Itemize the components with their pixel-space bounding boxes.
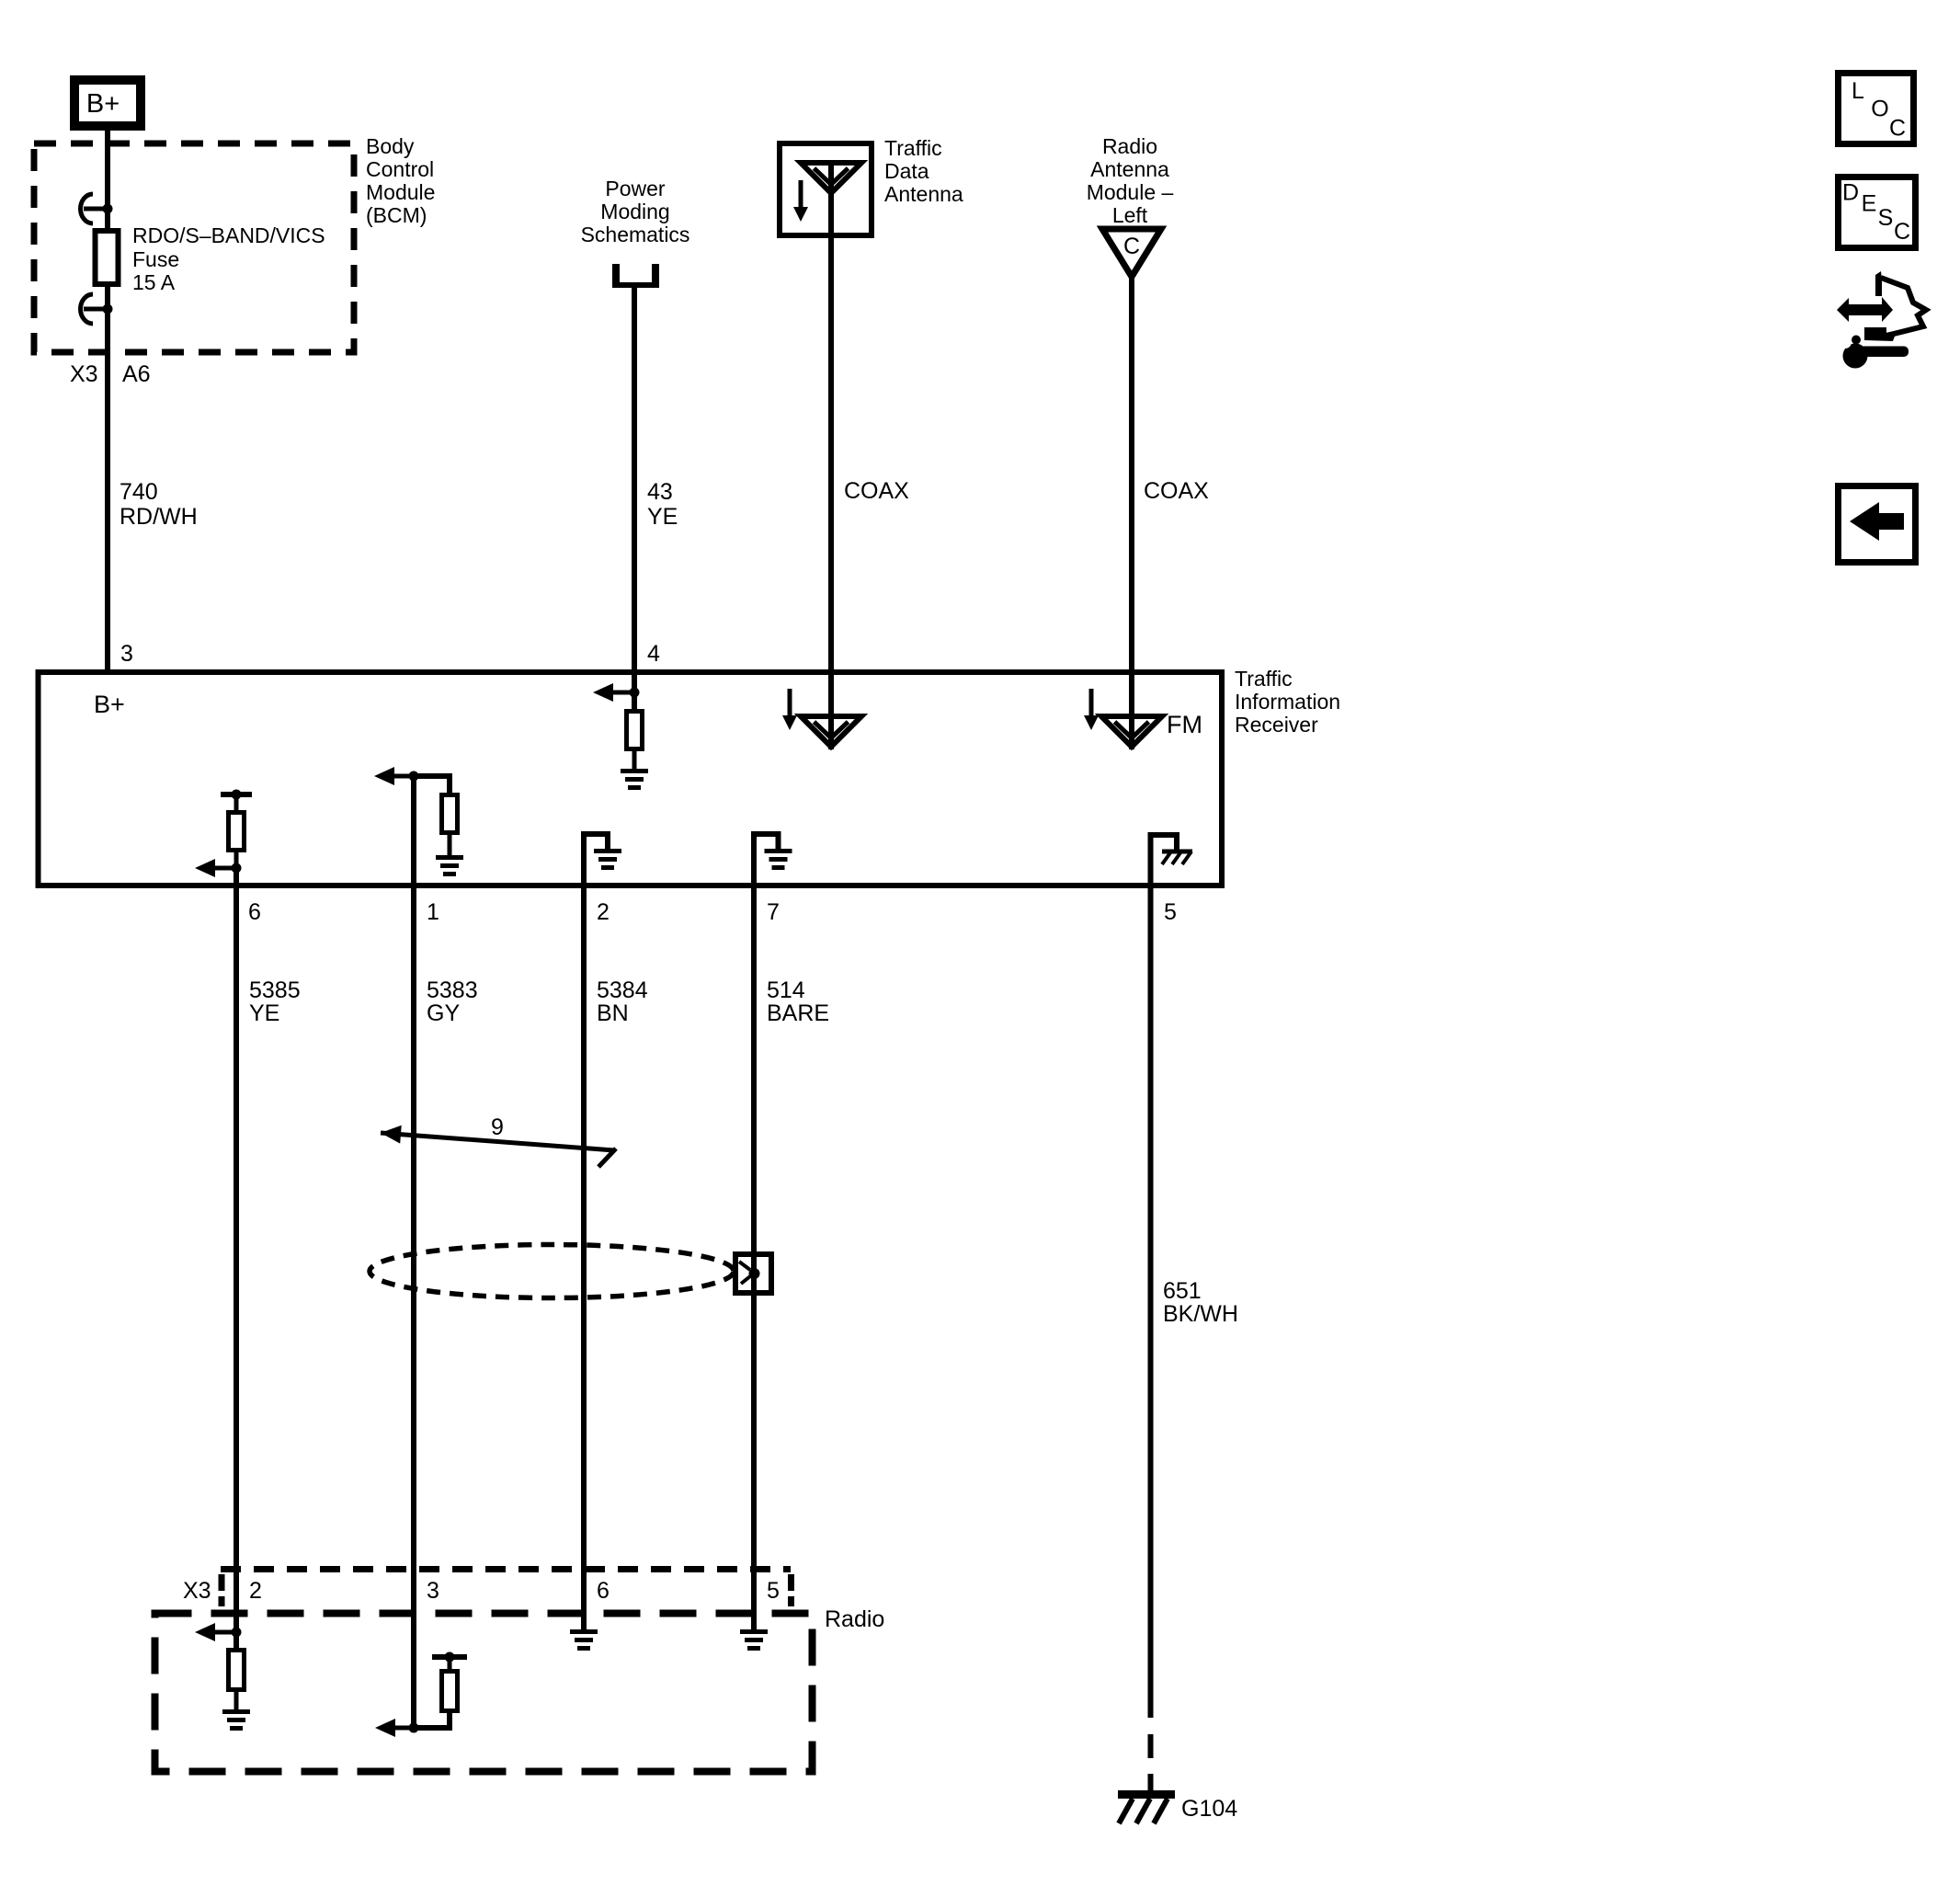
svg-text:FM: FM <box>1167 711 1202 738</box>
svg-text:5384: 5384 <box>597 977 648 1003</box>
svg-text:A6: A6 <box>122 361 151 387</box>
svg-text:2: 2 <box>597 899 610 925</box>
svg-text:Left: Left <box>1112 203 1148 227</box>
svg-text:3: 3 <box>120 641 133 667</box>
svg-text:Schematics: Schematics <box>581 223 690 246</box>
svg-text:Antenna: Antenna <box>1090 157 1169 181</box>
svg-text:6: 6 <box>597 1578 610 1604</box>
svg-text:D: D <box>1842 180 1859 206</box>
svg-text:Data: Data <box>884 159 929 183</box>
svg-text:RDO/S–BAND/VICS: RDO/S–BAND/VICS <box>132 223 325 247</box>
svg-text:Information: Information <box>1235 690 1340 714</box>
svg-text:X3: X3 <box>183 1578 211 1604</box>
svg-text:1: 1 <box>427 899 439 925</box>
svg-text:S: S <box>1878 205 1894 231</box>
svg-text:C: C <box>1894 219 1910 245</box>
svg-text:15 A: 15 A <box>132 270 176 294</box>
svg-text:Receiver: Receiver <box>1235 713 1318 737</box>
svg-text:5385: 5385 <box>249 977 301 1003</box>
svg-text:C: C <box>1889 116 1906 142</box>
svg-text:Moding: Moding <box>600 200 669 223</box>
svg-text:Fuse: Fuse <box>132 247 179 271</box>
svg-text:7: 7 <box>767 899 780 925</box>
svg-text:C: C <box>1123 234 1140 259</box>
svg-text:651: 651 <box>1163 1278 1202 1304</box>
svg-text:RD/WH: RD/WH <box>120 504 198 530</box>
svg-text:BN: BN <box>597 1000 629 1026</box>
svg-text:9: 9 <box>491 1114 504 1140</box>
svg-text:740: 740 <box>120 479 158 505</box>
svg-text:G104: G104 <box>1181 1796 1237 1822</box>
svg-text:5: 5 <box>1164 899 1177 925</box>
svg-text:X3: X3 <box>70 361 98 387</box>
svg-text:Power: Power <box>605 177 666 200</box>
svg-text:COAX: COAX <box>1144 478 1209 504</box>
svg-text:Radio: Radio <box>825 1606 884 1632</box>
svg-text:O: O <box>1871 97 1888 122</box>
svg-text:5: 5 <box>767 1578 780 1604</box>
svg-text:L: L <box>1852 78 1864 104</box>
svg-text:2: 2 <box>249 1578 262 1604</box>
svg-text:Traffic: Traffic <box>1235 667 1293 691</box>
svg-text:514: 514 <box>767 977 805 1003</box>
svg-text:E: E <box>1862 191 1877 217</box>
svg-text:Module: Module <box>366 180 435 204</box>
svg-text:3: 3 <box>427 1578 439 1604</box>
svg-text:Antenna: Antenna <box>884 182 963 206</box>
svg-text:Body: Body <box>366 134 415 158</box>
svg-text:Control: Control <box>366 157 434 181</box>
svg-text:BK/WH: BK/WH <box>1163 1301 1238 1327</box>
svg-text:YE: YE <box>647 504 678 530</box>
svg-text:COAX: COAX <box>844 478 909 504</box>
svg-text:YE: YE <box>249 1000 279 1026</box>
svg-text:B+: B+ <box>94 691 125 718</box>
svg-text:Traffic: Traffic <box>884 136 942 160</box>
svg-text:GY: GY <box>427 1000 460 1026</box>
svg-text:4: 4 <box>647 641 660 667</box>
svg-text:(BCM): (BCM) <box>366 203 427 227</box>
svg-text:Radio: Radio <box>1102 134 1157 158</box>
svg-text:43: 43 <box>647 479 673 505</box>
svg-text:Module –: Module – <box>1087 180 1174 204</box>
svg-text:5383: 5383 <box>427 977 478 1003</box>
svg-text:6: 6 <box>248 899 261 925</box>
svg-text:B+: B+ <box>86 89 120 119</box>
svg-text:BARE: BARE <box>767 1000 829 1026</box>
